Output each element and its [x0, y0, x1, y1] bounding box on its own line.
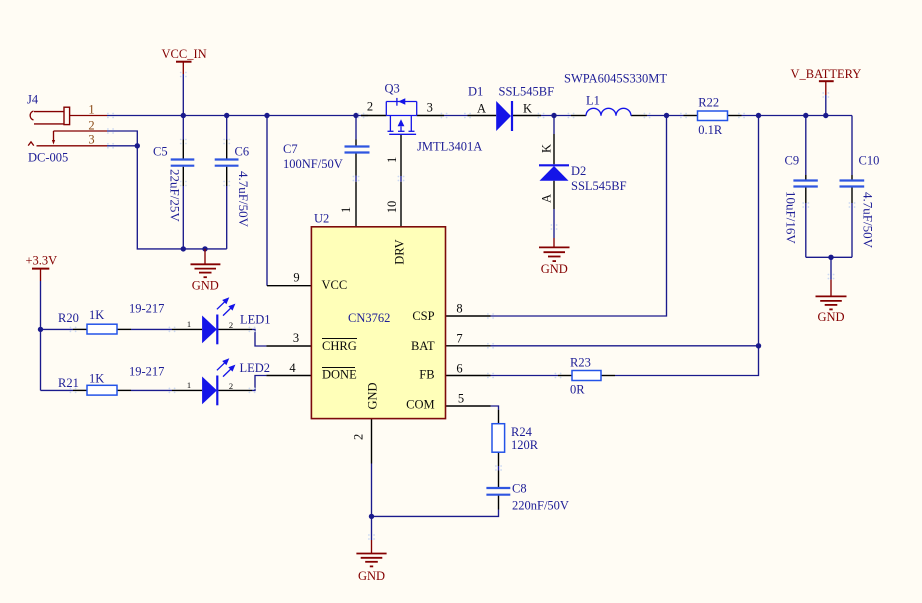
svg-text:Q3: Q3 [385, 82, 400, 96]
svg-text:7: 7 [456, 332, 462, 346]
svg-text:120R: 120R [511, 438, 539, 452]
svg-text:R24: R24 [511, 425, 533, 439]
svg-text:2: 2 [229, 381, 233, 391]
svg-text:3: 3 [88, 133, 94, 147]
svg-text:D1: D1 [468, 85, 483, 99]
svg-text:0.1R: 0.1R [698, 123, 723, 137]
svg-text:D2: D2 [571, 164, 586, 178]
svg-text:A: A [477, 101, 486, 115]
svg-text:V_BATTERY: V_BATTERY [791, 67, 862, 81]
svg-text:8: 8 [456, 302, 462, 316]
svg-text:9: 9 [293, 271, 299, 285]
svg-text:4.7uF/50V: 4.7uF/50V [236, 171, 251, 228]
svg-text:C5: C5 [153, 145, 168, 159]
svg-text:GND: GND [358, 569, 385, 583]
svg-text:CN3762: CN3762 [348, 311, 390, 325]
svg-text:4.7uF/50V: 4.7uF/50V [861, 192, 876, 249]
svg-text:1K: 1K [89, 372, 104, 386]
svg-text:GND: GND [192, 278, 219, 292]
svg-text:U2: U2 [314, 212, 329, 226]
svg-text:2: 2 [88, 118, 94, 132]
svg-text:VCC_IN: VCC_IN [162, 47, 207, 61]
svg-text:4: 4 [289, 361, 296, 375]
svg-text:LED1: LED1 [240, 312, 271, 326]
svg-text:K: K [540, 144, 554, 153]
svg-text:19-217: 19-217 [129, 365, 164, 379]
svg-text:FB: FB [419, 368, 434, 382]
svg-text:1: 1 [88, 103, 94, 117]
svg-text:R23: R23 [570, 356, 591, 370]
svg-text:6: 6 [456, 362, 462, 376]
svg-text:1K: 1K [89, 308, 104, 322]
svg-text:1: 1 [187, 319, 191, 329]
svg-text:1: 1 [339, 207, 353, 213]
svg-text:DONE: DONE [322, 368, 357, 382]
svg-text:10uF/16V: 10uF/16V [784, 191, 799, 244]
svg-text:SSL545BF: SSL545BF [571, 179, 627, 193]
svg-text:1: 1 [187, 380, 191, 390]
svg-text:R20: R20 [58, 311, 79, 325]
svg-text:L1: L1 [586, 93, 600, 107]
svg-text:C7: C7 [283, 142, 298, 156]
svg-text:SWPA6045S330MT: SWPA6045S330MT [564, 72, 667, 86]
svg-text:100NF/50V: 100NF/50V [283, 157, 343, 171]
svg-text:2: 2 [352, 434, 366, 440]
svg-text:3: 3 [427, 101, 433, 115]
svg-text:CHRG: CHRG [322, 339, 357, 353]
svg-text:2: 2 [229, 320, 233, 330]
svg-text:220nF/50V: 220nF/50V [512, 499, 569, 513]
svg-text:22uF/25V: 22uF/25V [168, 169, 183, 222]
svg-text:GND: GND [817, 310, 844, 324]
svg-text:+3.3V: +3.3V [26, 254, 58, 268]
svg-text:C8: C8 [512, 482, 527, 496]
svg-text:GND: GND [541, 262, 568, 276]
svg-text:LED2: LED2 [240, 361, 271, 375]
svg-text:DC-005: DC-005 [28, 150, 68, 164]
svg-text:C6: C6 [235, 145, 250, 159]
svg-text:19-217: 19-217 [129, 301, 164, 315]
svg-text:C10: C10 [859, 154, 880, 168]
svg-text:GND: GND [366, 382, 380, 409]
svg-text:5: 5 [458, 392, 464, 406]
svg-text:3: 3 [293, 331, 299, 345]
svg-text:BAT: BAT [411, 339, 435, 353]
svg-text:COM: COM [406, 398, 434, 412]
svg-text:1: 1 [385, 157, 399, 163]
svg-text:R22: R22 [698, 96, 719, 110]
svg-text:VCC: VCC [322, 278, 348, 292]
svg-text:SSL545BF: SSL545BF [499, 85, 555, 99]
svg-text:C9: C9 [785, 154, 800, 168]
svg-text:J4: J4 [27, 93, 39, 107]
svg-text:JMTL3401A: JMTL3401A [417, 140, 482, 154]
svg-text:A: A [540, 194, 554, 203]
svg-text:0R: 0R [570, 383, 585, 397]
svg-text:10: 10 [385, 201, 399, 214]
svg-text:2: 2 [367, 100, 373, 114]
svg-text:K: K [523, 102, 532, 116]
svg-text:DRV: DRV [393, 239, 407, 264]
svg-text:CSP: CSP [412, 309, 434, 323]
